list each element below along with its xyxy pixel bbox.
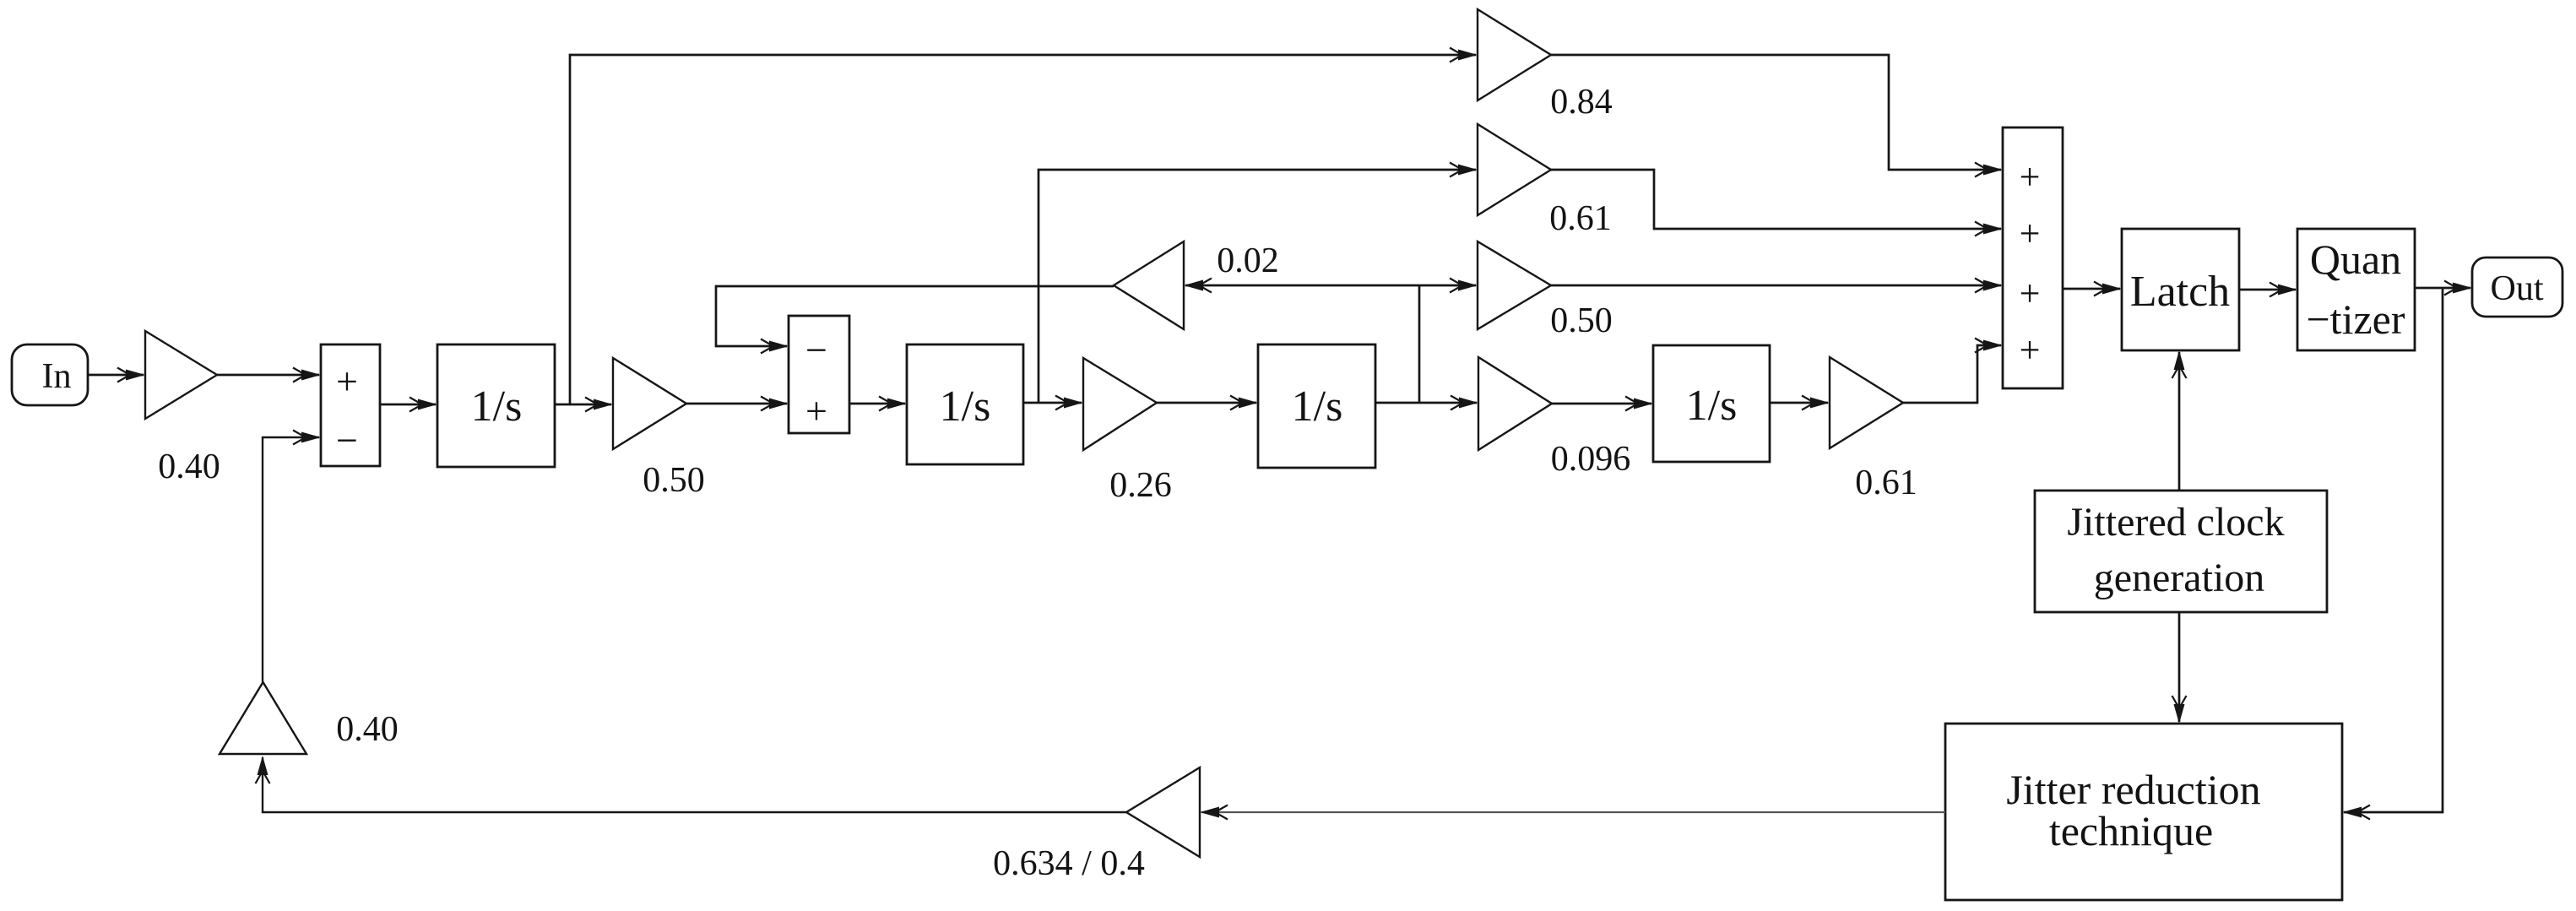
svg-text:1/s: 1/s <box>1292 382 1343 431</box>
svg-text:0.26: 0.26 <box>1109 466 1172 505</box>
svg-text:1/s: 1/s <box>1686 382 1738 430</box>
gain G6 feedforward 0.84 <box>1478 9 1551 100</box>
label 0.61 for G7 <box>1549 199 1612 238</box>
svg-text:Jitter reduction: Jitter reduction <box>2006 766 2260 813</box>
gain G4 0.096 <box>1478 357 1552 450</box>
svg-text:Jittered clock: Jittered clock <box>2067 500 2284 545</box>
block Latch <box>2122 229 2239 350</box>
wire Jittered clock generation down to Jitter reduction <box>2172 612 2187 724</box>
gain G1 input amplifier 0.40 <box>145 331 217 419</box>
wire node B to G8 input <box>1419 279 1478 293</box>
node Out terminal <box>2472 258 2562 317</box>
gain G8 feedforward 0.50 <box>1478 241 1551 329</box>
svg-text:+: + <box>805 389 827 432</box>
wire G11 to S1 minus input <box>263 431 321 683</box>
wire In to G1 <box>88 368 145 382</box>
label 0.634 / 0.4 for G10 <box>993 844 1145 883</box>
wire Quantizer to Out through node J4 <box>2415 281 2472 296</box>
svg-text:0.61: 0.61 <box>1549 199 1612 238</box>
wire Jitter reduction output to G10 <box>1200 805 1945 820</box>
svg-text:0.84: 0.84 <box>1550 83 1613 122</box>
svg-text:0.50: 0.50 <box>643 461 705 500</box>
gain G11 feedback 0.40 (points up) <box>220 682 306 754</box>
svg-text:−: − <box>805 328 827 371</box>
summer S2 (- upper, + lower) <box>789 316 849 433</box>
wire node J2 riser to G7 <box>1039 163 1478 404</box>
block Jittered clock generation <box>2035 491 2327 612</box>
block Quantizer <box>2297 229 2415 350</box>
integrator I2 (1/s) <box>907 344 1023 464</box>
svg-text:Quan: Quan <box>2310 236 2401 283</box>
wire G10 to G11 input <box>256 756 1127 812</box>
wire node J4 down to Jitter reduction input <box>2342 288 2443 820</box>
gain G5 0.61 after I4 <box>1830 357 1903 448</box>
svg-text:0.40: 0.40 <box>336 710 399 749</box>
label 0.40 for G11 <box>336 710 399 749</box>
wire G5 to S3 fourth input <box>1903 339 2003 404</box>
svg-text:In: In <box>42 357 72 396</box>
svg-text:+: + <box>2020 156 2041 198</box>
wire G1 to S1 plus input <box>217 368 321 382</box>
wire G2 to S2 plus input <box>686 397 789 411</box>
label 0.50 for G8 <box>1550 301 1613 340</box>
label 0.50 for G2 <box>643 461 705 500</box>
wire G3 to I3 <box>1157 396 1258 410</box>
gain G9 local feedback 0.02 (points left) <box>1114 241 1184 329</box>
svg-text:−: − <box>336 419 358 462</box>
svg-text:0.634 / 0.4: 0.634 / 0.4 <box>993 844 1145 883</box>
svg-text:generation: generation <box>2094 556 2265 600</box>
summer S3 (four + inputs) <box>2003 127 2063 388</box>
wire S3 to Latch <box>2063 282 2122 296</box>
svg-text:+: + <box>336 360 358 403</box>
svg-text:+: + <box>2020 329 2041 371</box>
label 0.84 for G6 <box>1550 83 1613 122</box>
wire node B to G9 input <box>1184 279 1419 293</box>
svg-text:Latch: Latch <box>2130 268 2230 316</box>
gain G10 global feedback 0.634/0.4 (points left) <box>1126 767 1200 857</box>
label 0.02 for G9 <box>1217 241 1279 280</box>
svg-text:+: + <box>2020 273 2041 314</box>
label 0.096 for G4 <box>1551 440 1631 479</box>
wire G7 to S3 second input <box>1551 170 2003 236</box>
integrator I3 (1/s) <box>1258 344 1375 468</box>
integrator I1 (1/s) <box>437 344 555 467</box>
wire G4 to I4 <box>1552 397 1653 411</box>
wire S2 to I2 <box>849 397 907 411</box>
integrator I4 (1/s) <box>1653 345 1770 462</box>
label 0.26 for G3 <box>1109 466 1172 505</box>
svg-text:0.02: 0.02 <box>1217 241 1279 280</box>
svg-text:0.50: 0.50 <box>1550 301 1613 340</box>
svg-text:+: + <box>2020 213 2041 254</box>
svg-text:−tizer: −tizer <box>2306 296 2405 343</box>
svg-text:1/s: 1/s <box>471 382 523 431</box>
wire I1 to G2 through node J1 <box>555 398 613 412</box>
gain G2 0.50 <box>613 358 686 449</box>
wire I4 to G5 <box>1770 396 1830 410</box>
block Jitter reduction technique <box>1945 724 2342 900</box>
node In terminal <box>12 344 88 405</box>
gain G7 feedforward 0.61 <box>1478 124 1551 215</box>
svg-text:Out: Out <box>2491 269 2544 308</box>
label 0.40 for G1 <box>158 447 220 486</box>
svg-text:technique: technique <box>2049 807 2213 854</box>
wire G6 to S3 first input <box>1551 55 2003 177</box>
wire Latch to Quantizer <box>2239 283 2297 297</box>
svg-text:0.40: 0.40 <box>158 447 220 486</box>
wire node J3 riser to node B <box>1418 285 1421 403</box>
svg-text:1/s: 1/s <box>940 382 991 431</box>
wire G9 to S2 minus input <box>716 286 1114 354</box>
svg-text:0.096: 0.096 <box>1551 440 1631 479</box>
label 0.61 for G5 <box>1855 464 1917 502</box>
wire clock Jittered clock generation up to Latch <box>2172 350 2187 491</box>
wire S1 to I1 <box>380 398 437 412</box>
svg-text:0.61: 0.61 <box>1855 464 1917 502</box>
wire I2 to G3 through node J2 <box>1023 396 1083 410</box>
wire I3 to G4 through node J3 <box>1375 396 1478 410</box>
gain G3 0.26 <box>1083 358 1157 450</box>
wire G8 to S3 third input <box>1551 279 2003 293</box>
wire node J1 riser to G6 <box>570 48 1478 405</box>
summer S1 (+ upper, - lower) <box>321 344 380 466</box>
